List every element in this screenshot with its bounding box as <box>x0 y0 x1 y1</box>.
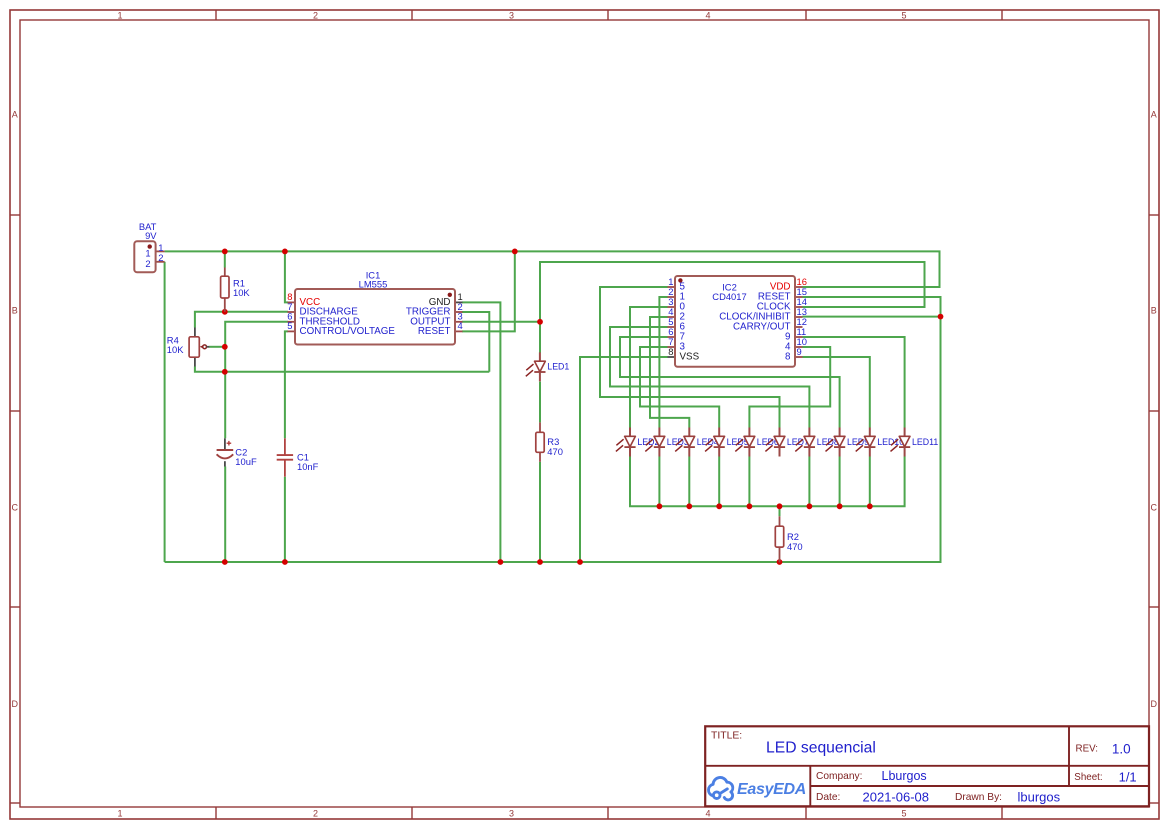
svg-text:lburgos: lburgos <box>1018 790 1061 805</box>
svg-text:1.0: 1.0 <box>1112 742 1131 757</box>
svg-text:9V: 9V <box>145 230 157 241</box>
svg-text:10uF: 10uF <box>235 456 257 467</box>
svg-text:8: 8 <box>668 346 673 357</box>
svg-text:A: A <box>12 110 18 120</box>
svg-text:CONTROL/VOLTAGE: CONTROL/VOLTAGE <box>300 326 396 337</box>
svg-text:CARRY/OUT: CARRY/OUT <box>733 322 791 333</box>
svg-text:Date:: Date: <box>816 792 840 803</box>
svg-text:1: 1 <box>117 10 122 20</box>
svg-text:2: 2 <box>158 252 163 263</box>
svg-text:CD4017: CD4017 <box>712 291 746 302</box>
svg-text:2: 2 <box>145 258 150 269</box>
svg-text:REV:: REV: <box>1076 744 1099 755</box>
svg-text:1: 1 <box>117 808 122 818</box>
svg-text:D: D <box>11 699 18 709</box>
svg-text:EasyEDA: EasyEDA <box>737 781 806 798</box>
svg-text:5: 5 <box>287 320 292 331</box>
svg-text:1/1: 1/1 <box>1119 770 1137 785</box>
svg-text:C: C <box>1150 503 1157 513</box>
svg-text:D: D <box>1150 699 1157 709</box>
svg-text:B: B <box>12 306 18 316</box>
svg-text:5: 5 <box>901 10 906 20</box>
svg-text:TITLE:: TITLE: <box>711 730 742 741</box>
svg-text:470: 470 <box>547 446 563 457</box>
svg-text:LED sequencial: LED sequencial <box>766 739 876 756</box>
svg-text:2: 2 <box>313 808 318 818</box>
svg-text:LM555: LM555 <box>359 279 388 290</box>
svg-text:RESET: RESET <box>418 326 451 337</box>
svg-text:4: 4 <box>705 10 710 20</box>
svg-text:A: A <box>1151 110 1157 120</box>
svg-text:470: 470 <box>787 541 803 552</box>
svg-text:Drawn By:: Drawn By: <box>955 792 1002 803</box>
svg-text:10K: 10K <box>233 287 250 298</box>
svg-text:Company:: Company: <box>816 771 862 782</box>
svg-text:C: C <box>11 503 18 513</box>
svg-text:10K: 10K <box>167 344 184 355</box>
svg-text:Sheet:: Sheet: <box>1074 772 1102 783</box>
svg-text:3: 3 <box>509 10 514 20</box>
svg-text:8: 8 <box>785 352 791 363</box>
svg-text:Lburgos: Lburgos <box>882 769 927 783</box>
svg-text:2: 2 <box>313 10 318 20</box>
svg-text:4: 4 <box>705 808 710 818</box>
svg-text:LED11: LED11 <box>912 437 938 447</box>
svg-text:3: 3 <box>509 808 514 818</box>
svg-text:VSS: VSS <box>680 352 700 363</box>
svg-text:10nF: 10nF <box>297 461 319 472</box>
svg-text:LED1: LED1 <box>547 362 569 372</box>
svg-text:2021-06-08: 2021-06-08 <box>863 790 930 805</box>
svg-text:B: B <box>1151 306 1157 316</box>
svg-text:5: 5 <box>901 808 906 818</box>
svg-text:9: 9 <box>797 346 802 357</box>
svg-text:4: 4 <box>458 320 463 331</box>
